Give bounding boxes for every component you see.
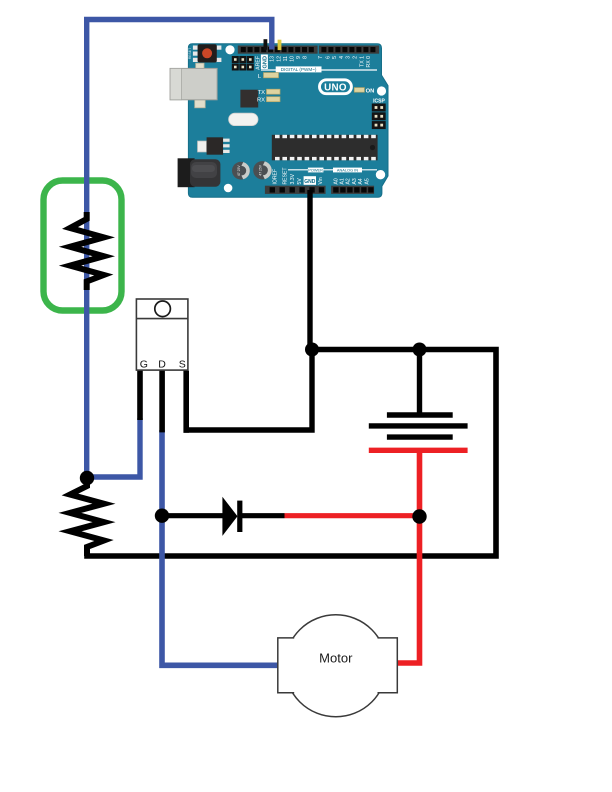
POWER label box (308, 167, 324, 172)
MOSFET Q1 drain leg (159, 371, 165, 433)
svg-text:A2: A2 (346, 178, 352, 184)
svg-text:3: 3 (346, 56, 352, 59)
ON LED (354, 88, 374, 95)
svg-text:RX 0: RX 0 (366, 56, 372, 68)
motor M1 left terminal tab (278, 638, 294, 693)
MOSFET Q1 source leg (183, 371, 189, 433)
svg-text:5V: 5V (297, 178, 303, 185)
svg-text:DIGITAL (PWM~): DIGITAL (PWM~) (281, 67, 317, 72)
analog header strip (331, 186, 374, 194)
power pin labels (272, 168, 324, 185)
USB connector (170, 63, 217, 108)
node B junction dot at battery stem (413, 343, 427, 357)
svg-text:7: 7 (318, 56, 324, 59)
diode D1 triangle (222, 497, 237, 536)
svg-text:2: 2 (353, 56, 359, 59)
Arduino UNO board U1 (170, 39, 388, 197)
power header strip (265, 186, 326, 194)
DIGITAL (PWM~) label box (276, 66, 322, 72)
motor M1 body (285, 615, 387, 717)
mounting hole bottom-left (224, 184, 233, 193)
wire: blue drain wire from MOSFET D down to motor left terminal (162, 430, 279, 665)
svg-text:RESET: RESET (188, 48, 192, 59)
analog pin labels (334, 178, 371, 184)
svg-text:D: D (158, 359, 166, 371)
wire: battery negative stem from node B (417, 350, 422, 417)
battery BT1 plate 2 (long) (369, 423, 468, 428)
crystal oscillator (229, 113, 258, 125)
svg-text:Motor: Motor (319, 651, 353, 666)
highlight box around resistor R1 (44, 181, 122, 311)
wire: red positive rail diode to node C (285, 513, 420, 518)
voltage regulator (198, 137, 230, 154)
USB-serial chip (240, 90, 258, 108)
svg-text:GND: GND (304, 179, 316, 185)
wire: blue loop from Arduino pin 13 up over and down the left side (87, 20, 272, 479)
svg-text:AREF: AREF (256, 56, 262, 70)
resistor R1 (70, 212, 104, 290)
svg-text:4: 4 (339, 56, 345, 59)
node D junction dot on drain wire (155, 509, 169, 523)
digital header strip left (238, 46, 318, 54)
svg-text:5: 5 (332, 56, 338, 59)
svg-text:G: G (140, 359, 148, 371)
digital pin labels (256, 56, 373, 70)
L LED (258, 73, 279, 80)
ANALOG IN label box (333, 167, 362, 172)
capacitor C1 (232, 162, 250, 180)
battery BT1 plate 1 (negative short) (387, 412, 453, 417)
jumper pin in socket 12 (yellow, sticking up) (278, 40, 282, 50)
svg-text:UNO: UNO (324, 83, 347, 94)
svg-text:ANALOG IN: ANALOG IN (337, 167, 358, 172)
svg-text:8: 8 (303, 56, 309, 59)
Arduino PCB outline (188, 44, 388, 197)
digital header strip right (319, 46, 379, 54)
TX RX LEDs (257, 89, 280, 103)
svg-text:TX 1: TX 1 (359, 56, 365, 67)
wire: Arduino GND pin down to node A and on down to source bend (184, 190, 313, 430)
svg-text:POWER: POWER (308, 167, 323, 172)
resistor R2 (70, 478, 104, 556)
UNO logo (320, 80, 352, 94)
GND pin label (boxed) (261, 55, 269, 70)
svg-text:47 25V: 47 25V (237, 165, 241, 176)
svg-text:A4: A4 (358, 178, 364, 184)
svg-text:GND: GND (263, 56, 269, 68)
mounting hole top-left (225, 45, 234, 54)
capacitor C2 (253, 161, 271, 179)
node C junction dot on red rail (412, 509, 426, 523)
svg-text:TX: TX (258, 90, 266, 96)
wire: diode cathode black segment (240, 513, 285, 518)
svg-text:9: 9 (296, 56, 302, 59)
ICSP header for USB chip (232, 56, 254, 71)
svg-text:13: 13 (269, 56, 275, 62)
svg-text:Vin: Vin (318, 177, 324, 184)
svg-text:IOREF: IOREF (272, 169, 278, 185)
svg-text:47 25V: 47 25V (259, 164, 263, 175)
svg-text:6: 6 (325, 56, 331, 59)
svg-text:S: S (179, 359, 186, 371)
white silk line bottom (288, 169, 377, 171)
node G junction dot at gate/R1/R2 (80, 471, 94, 485)
svg-text:ON: ON (366, 89, 375, 95)
mounting hole bottom-right (376, 170, 385, 179)
MOSFET Q1 gate leg (137, 371, 143, 420)
white silk line top (261, 69, 377, 71)
battery BT1 plate 3 (short) (387, 434, 453, 439)
jumper pin in GND socket (black, sticking up) (264, 39, 268, 50)
battery BT1 plate 4 (positive, red) (369, 448, 468, 453)
wire: ground rail from node A right, down right edge, left along bottom to R2 (84, 350, 496, 557)
wire: diode anode from node D (162, 513, 224, 518)
MOSFET Q1 body (136, 299, 188, 370)
wire: red battery positive down through node C to motor (395, 450, 420, 663)
reset button (188, 44, 222, 62)
svg-text:12: 12 (276, 56, 282, 62)
ATmega328 DIP chip (272, 135, 378, 161)
power barrel jack (178, 158, 221, 187)
node A junction dot (305, 343, 319, 357)
svg-text:RX: RX (257, 97, 265, 103)
motor M1 right terminal tab (378, 638, 398, 693)
GND power pin label (boxed) (304, 176, 316, 185)
svg-text:11: 11 (283, 56, 289, 61)
svg-text:A0: A0 (334, 178, 340, 184)
wire: blue gate wire from MOSFET G to node G (87, 418, 140, 477)
mounting hole top-right (377, 86, 386, 95)
svg-text:RESET: RESET (282, 168, 288, 185)
ICSP header (372, 98, 386, 129)
svg-text:10: 10 (289, 56, 295, 62)
diode D1 cathode bar (237, 501, 242, 532)
svg-text:3.3V: 3.3V (290, 173, 296, 184)
svg-text:A5: A5 (364, 178, 370, 184)
